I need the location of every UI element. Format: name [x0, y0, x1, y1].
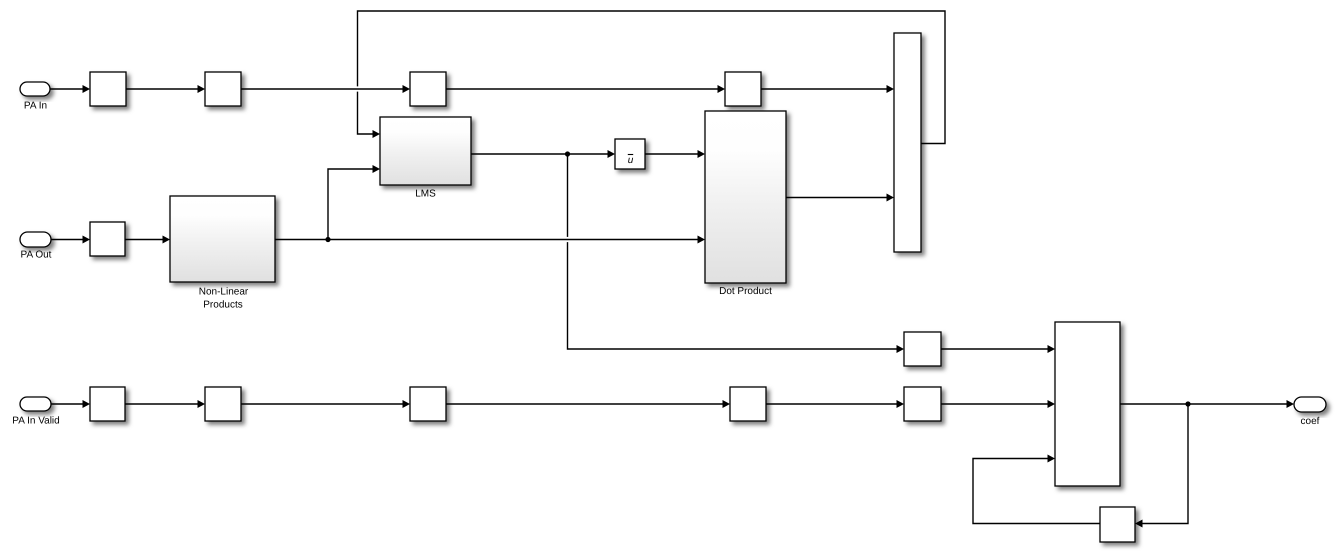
delay block D4	[730, 387, 766, 421]
wire A1 to A2	[126, 85, 205, 93]
junction node on NLP output	[325, 237, 330, 242]
wire D3 to D4	[446, 400, 730, 408]
inport PA Out	[20, 232, 52, 261]
delay block A2	[205, 72, 241, 106]
delay block D3	[410, 387, 446, 421]
wire PA In Valid to Delay D1	[51, 400, 90, 408]
wire A2 to A3	[241, 85, 410, 93]
mux block	[894, 33, 921, 252]
delay block C1	[904, 332, 941, 366]
junction node on E output	[1185, 401, 1190, 406]
wire Delay C1 to block E input 1	[941, 345, 1055, 353]
wire conj block to Dot Product input 1	[645, 150, 705, 158]
outport coef	[1294, 397, 1326, 427]
wire A3 to A4	[446, 85, 725, 93]
svg-text:Dot Product: Dot Product	[719, 286, 772, 297]
wire block E output to coef outport	[1120, 400, 1294, 408]
Non-Linear Products block	[170, 196, 275, 311]
wire branch LMS output down to Delay C1	[568, 154, 905, 353]
wire branch to LMS input 2	[328, 165, 380, 240]
wire Dot Product output to Mux input 2	[786, 194, 894, 202]
wire A4 to Mux input 1	[761, 85, 894, 93]
svg-text:coef: coef	[1301, 416, 1320, 427]
svg-text:PA In Valid: PA In Valid	[12, 416, 59, 427]
wire B1 to Non-Linear Products	[125, 236, 170, 244]
block E coefficient hold	[1055, 322, 1120, 486]
wire Non-Linear Products to Dot Product input 2	[275, 236, 705, 244]
wire D4 to D5	[766, 400, 904, 408]
delay block B1	[90, 222, 125, 256]
wire feedback down to Delay F	[1135, 404, 1188, 528]
delay block A3	[410, 72, 446, 106]
delay block F feedback	[1100, 507, 1135, 542]
conj block u-bar	[615, 139, 645, 169]
wire LMS output to conj block	[471, 150, 615, 158]
svg-text:PA In: PA In	[24, 101, 47, 112]
wire Mux output feedback to LMS input 1	[358, 11, 946, 144]
svg-text:PA Out: PA Out	[21, 250, 52, 261]
junction node on LMS output	[565, 151, 570, 156]
svg-text:LMS: LMS	[415, 189, 436, 200]
wire PA Out to Delay B1	[51, 236, 90, 244]
svg-text:Non-Linear: Non-Linear	[199, 287, 249, 298]
svg-text:u: u	[628, 155, 634, 166]
delay block D1	[90, 387, 125, 421]
delay block A4	[725, 72, 761, 106]
wire D5 to block E input 2	[941, 400, 1055, 408]
inport PA In	[20, 82, 50, 112]
delay block D5	[904, 387, 941, 421]
LMS block	[380, 117, 471, 200]
wire D1 to D2	[125, 400, 205, 408]
wire Delay F output to block E input 3	[973, 455, 1102, 524]
Dot Product block	[705, 111, 786, 297]
delay block A1	[90, 72, 126, 106]
inport PA In Valid	[12, 397, 59, 427]
delay block D2	[205, 387, 241, 421]
wire PA In to Delay A1	[50, 85, 90, 93]
wire D2 to D3	[241, 400, 410, 408]
svg-text:Products: Products	[203, 300, 242, 311]
